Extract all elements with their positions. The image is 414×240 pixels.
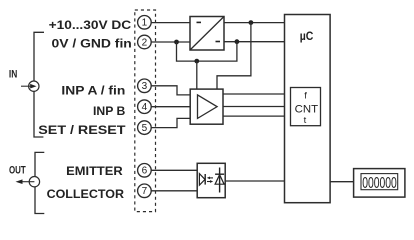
svg-text:IN: IN xyxy=(9,69,17,81)
svg-text:6: 6 xyxy=(142,166,148,177)
OUT group bracket xyxy=(35,152,44,213)
wire DC/DC top output to uC xyxy=(224,22,285,24)
amplifier U2 xyxy=(190,89,223,124)
display inner window xyxy=(361,174,398,190)
svg-text:µC: µC xyxy=(300,29,314,43)
wire amp output 2 to uC xyxy=(223,106,285,108)
display box xyxy=(354,169,405,198)
svg-text:INP B: INP B xyxy=(93,104,125,118)
svg-text:f: f xyxy=(304,91,307,102)
svg-text:EMITTER: EMITTER xyxy=(66,164,123,178)
svg-text:2: 2 xyxy=(142,37,148,48)
wire terminal2 to DC/DC xyxy=(151,41,190,43)
OUT arrow icon xyxy=(16,177,40,187)
counter CNT box xyxy=(291,88,321,126)
svg-text:5: 5 xyxy=(142,123,148,134)
junction dot top rail xyxy=(249,20,254,25)
dashed terminal strip xyxy=(135,10,156,212)
svg-text:000000: 000000 xyxy=(362,175,397,192)
svg-text:t: t xyxy=(304,115,307,126)
junction dot 0V to amp xyxy=(194,59,199,64)
optocoupler U3 xyxy=(197,163,225,197)
wire uC to display xyxy=(330,181,354,183)
wire DC/DC bottom output to uC xyxy=(224,41,285,43)
svg-text:COLLECTOR: COLLECTOR xyxy=(47,187,124,201)
terminal 5 xyxy=(138,121,152,135)
svg-text:4: 4 xyxy=(142,102,148,113)
IN arrow icon xyxy=(21,81,39,91)
svg-text:INP A / fin: INP A / fin xyxy=(61,84,125,98)
terminal 7 xyxy=(138,184,152,198)
wire terminal5 to amplifier xyxy=(151,118,190,127)
terminal 6 xyxy=(138,164,152,178)
svg-text:+10...30V DC: +10...30V DC xyxy=(49,18,132,32)
wire amp output 1 to uC xyxy=(223,93,285,95)
wire terminal6 to optocoupler xyxy=(151,169,197,171)
IN group bracket xyxy=(34,32,44,137)
terminal 3 xyxy=(138,79,152,93)
svg-text:0V / GND fin: 0V / GND fin xyxy=(52,36,132,50)
wire optocoupler to uC xyxy=(225,180,284,182)
wire terminal7 to optocoupler xyxy=(151,190,197,192)
svg-text:SET / RESET: SET / RESET xyxy=(38,123,126,137)
terminal 2 xyxy=(138,35,152,49)
wire power drop to amplifier xyxy=(217,23,251,90)
terminal 4 xyxy=(138,100,152,114)
wire terminal4 to amplifier xyxy=(151,106,190,108)
svg-text:CNT: CNT xyxy=(295,104,319,116)
svg-text:3: 3 xyxy=(142,81,148,92)
svg-text:7: 7 xyxy=(142,186,148,197)
wire amp output 3 to uC xyxy=(223,115,285,117)
junction dot 0V rail xyxy=(235,39,240,44)
svg-text:OUT: OUT xyxy=(9,165,26,177)
DC/DC converter U1 xyxy=(190,17,224,51)
wire terminal3 to amplifier xyxy=(151,86,190,95)
wire 0V loop below DC/DC xyxy=(177,42,237,61)
junction dot at terminal2 wire xyxy=(174,40,179,45)
terminal 1 xyxy=(138,15,152,29)
svg-text:1: 1 xyxy=(142,18,148,29)
wire 0V drop to amplifier xyxy=(196,61,198,89)
microcontroller uC box xyxy=(285,15,331,203)
wire terminal1 to DC/DC xyxy=(151,22,190,24)
